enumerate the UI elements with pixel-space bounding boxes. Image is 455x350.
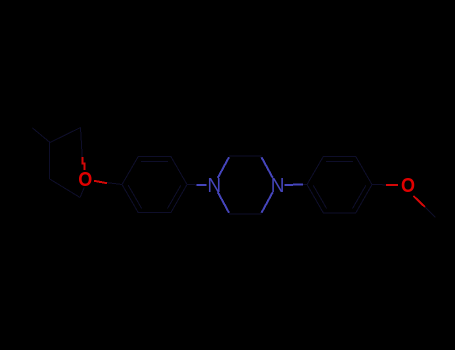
atom O1 (left ether oxygen) (78, 169, 92, 191)
wire N3-ring3 carbon half (303, 184, 307, 186)
svg-text:O: O (78, 169, 92, 191)
atom O4 (methoxy oxygen) (401, 175, 415, 197)
wire C1-C2 (50, 128, 81, 143)
wire O1-ring1 red half (94, 181, 107, 183)
atom N2 (piperazine left nitrogen) (207, 174, 221, 197)
wire C2-C3 (49, 143, 51, 180)
wire N3-ring3 nitrogen half (284, 184, 303, 186)
wire O1-ring1 carbon half (107, 183, 122, 185)
piperazine top C-C bond (229, 155, 262, 157)
wire O1-C1 carbon half (81, 128, 83, 157)
wire ring1-N2 carbon half (187, 184, 197, 186)
wire O1-C1 red half (ether O up-bond, oxygen side) (82, 157, 84, 170)
wire C2-methyl stub (33, 128, 51, 143)
wire C3-C4 (50, 179, 80, 198)
piperazine ring bonds at N3 (262, 157, 273, 178)
benzene ring 1 (left aryl) (122, 156, 187, 212)
piperazine ring bonds at N2 (218, 157, 229, 178)
wire O4-CH3 carbon half (425, 207, 436, 218)
wire ring1-N2 nitrogen half (197, 184, 207, 186)
piperazine bottom C-C bond (229, 213, 262, 215)
atom N3 (piperazine right nitrogen) (271, 174, 285, 197)
svg-text:O: O (401, 175, 415, 197)
wire O4-CH3 oxygen half (red) (414, 196, 426, 207)
benzene ring 3 (right aryl) (307, 157, 372, 213)
wire ring3-O4 oxygen half (red) (386, 184, 398, 186)
wire C4-O1 (80, 188, 84, 198)
wire ring3-O4 carbon half (372, 184, 386, 186)
svg-text:N: N (271, 174, 285, 197)
